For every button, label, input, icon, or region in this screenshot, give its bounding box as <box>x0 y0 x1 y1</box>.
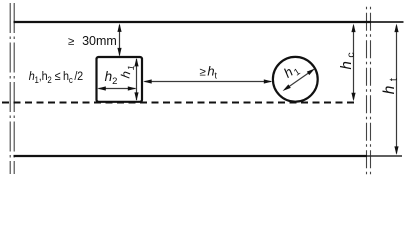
right break line outer <box>370 4 372 176</box>
left break line outer <box>9 3 11 174</box>
top flange extension <box>371 21 404 23</box>
dimension h1 line (rect) <box>136 59 138 100</box>
dimension h2 line <box>99 88 136 90</box>
arrowhead up (hc) <box>351 24 355 32</box>
right break line inner <box>366 4 368 176</box>
arrowhead down (hc) <box>351 93 355 102</box>
arrowhead left (h2) <box>97 86 106 90</box>
arrowhead up (h1 rect) <box>134 58 138 67</box>
arrowhead up (ht) <box>394 24 398 32</box>
arrowhead down (ht) <box>394 146 398 155</box>
dimension hc line <box>353 26 355 100</box>
rectangular opening <box>97 57 143 102</box>
dimension >=ht line <box>145 81 272 83</box>
dashed web centerline <box>2 102 357 104</box>
dimension >=30mm line <box>119 25 121 56</box>
arrowhead right (h2) <box>128 86 137 90</box>
arrowhead upper-right (diameter) <box>307 69 315 76</box>
top flange line <box>14 21 372 23</box>
bottom flange line <box>14 155 368 157</box>
arrowhead up (30mm top) <box>117 23 121 32</box>
arrowhead left (>=ht) <box>143 79 152 83</box>
label h1,h2 <= hc/2 <box>29 69 83 85</box>
bottom flange extension <box>367 155 402 157</box>
arrowhead right (>=ht) <box>264 79 273 83</box>
arrowhead down (h1 rect) <box>134 92 138 101</box>
arrowhead down (30mm bottom) <box>117 48 121 57</box>
arrowhead lower-left (diameter) <box>283 84 291 91</box>
circular opening <box>273 57 318 102</box>
dimension ht line (right) <box>396 26 398 154</box>
left break line inner <box>13 3 15 174</box>
circle diameter dimension line <box>288 72 311 88</box>
